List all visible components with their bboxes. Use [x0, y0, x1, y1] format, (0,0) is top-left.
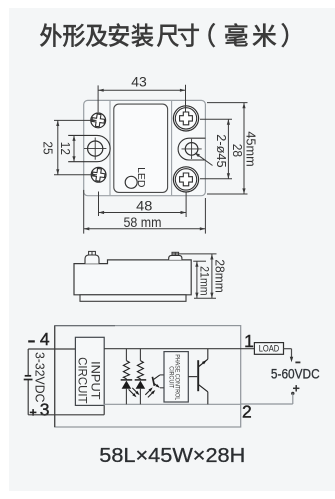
wire source plus to terminal 2	[292, 393, 294, 404]
dim 12	[73, 135, 75, 161]
relay body top view	[84, 100, 206, 195]
LED D1 emission arrows	[129, 389, 136, 396]
screw bottom-left	[91, 167, 106, 182]
phototransistor Q1	[152, 377, 154, 386]
screw bottom-right	[173, 167, 198, 192]
node junction dot	[291, 392, 294, 395]
svg-text:43: 43	[131, 73, 147, 89]
lid rect	[114, 104, 168, 192]
LED D1	[125, 379, 127, 380]
side view screw bump left	[85, 255, 99, 264]
svg-text:CIRCUIT: CIRCUIT	[168, 366, 175, 388]
dim 28 right	[200, 118, 232, 120]
svg-text:CIRCUIT: CIRCUIT	[76, 357, 90, 404]
svg-text:28: 28	[230, 144, 245, 157]
screw top-right	[173, 106, 198, 131]
side view base plate	[80, 295, 186, 302]
svg-text:25: 25	[41, 141, 55, 154]
optocoupler light arrows	[145, 389, 151, 395]
svg-text:1: 1	[244, 331, 254, 351]
wire terminal 4	[28, 348, 75, 350]
minus label right	[295, 362, 300, 364]
dim 45mm	[207, 102, 248, 104]
svg-text:LED: LED	[135, 167, 147, 188]
mounting slot left	[68, 135, 110, 161]
INPUT CIRCUIT box U1	[75, 337, 104, 405]
plus label right	[293, 387, 299, 389]
svg-text:12: 12	[58, 142, 72, 155]
svg-text:5-60VDC: 5-60VDC	[271, 367, 320, 382]
bottom rail net	[104, 403, 241, 405]
svg-text:4: 4	[40, 329, 50, 349]
svg-text:LOAD: LOAD	[259, 344, 280, 354]
svg-text:48: 48	[136, 198, 152, 214]
dim 25	[54, 119, 97, 121]
divider right	[171, 101, 173, 195]
screw top-left	[91, 113, 106, 128]
dim 43	[97, 85, 99, 112]
dim 58 mm	[83, 190, 85, 234]
mounting hole left crosshair	[88, 141, 103, 156]
LED indicator circle	[125, 176, 137, 188]
LED D2	[139, 379, 141, 380]
battery symbol	[25, 375, 32, 377]
svg-text:3-32VDC: 3-32VDC	[32, 352, 47, 403]
svg-text:2-ø45: 2-ø45	[214, 134, 228, 167]
dim 21mm	[193, 260, 206, 262]
side view body outline	[74, 260, 191, 295]
output transistor Q2	[188, 376, 197, 378]
battery source wire	[27, 349, 29, 376]
plus label left	[30, 411, 37, 413]
resistor R1	[125, 349, 127, 361]
top rail net	[104, 348, 254, 350]
minus label left	[28, 340, 35, 342]
SSR outline box	[55, 326, 241, 427]
dim 48	[98, 192, 100, 217]
divider left	[109, 101, 111, 195]
wire terminal 3	[28, 414, 104, 416]
mounting hole right crosshair	[185, 143, 198, 156]
wire load to source minus	[284, 348, 292, 350]
side view screw bump right	[169, 255, 182, 260]
dim 28mm	[172, 253, 217, 255]
resistor R2	[139, 349, 141, 361]
svg-text:58 mm: 58 mm	[124, 214, 162, 230]
load box	[254, 343, 283, 355]
svg-text:21mm: 21mm	[198, 266, 212, 296]
svg-text:28mm: 28mm	[213, 259, 227, 293]
svg-text:58L×45W×28H: 58L×45W×28H	[99, 445, 245, 467]
PHASE CONTROL CIRCUIT box U2	[164, 352, 188, 402]
leader 2-ø45	[196, 154, 213, 166]
svg-text:2: 2	[242, 401, 252, 421]
mounting slot right	[178, 138, 205, 160]
title 外形及安装尺寸（毫米）	[40, 23, 288, 47]
